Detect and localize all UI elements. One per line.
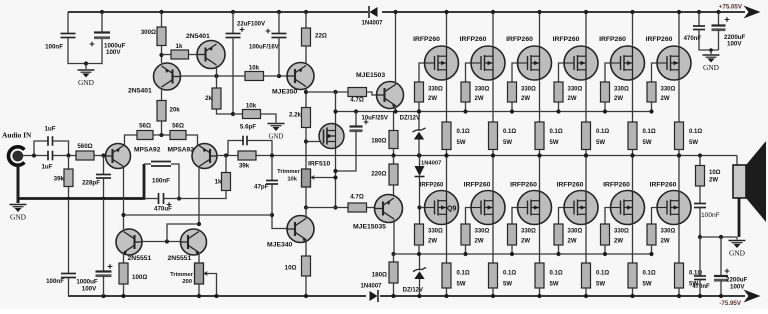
wire R7 to Q4 emitter	[186, 135, 198, 146]
wire gate M3	[512, 63, 517, 82]
label 1uF C3	[41, 164, 52, 171]
svg-text:300Ω: 300Ω	[141, 29, 156, 36]
wire output to R19	[393, 156, 395, 165]
wire gate M8	[466, 208, 471, 225]
junction zener top bus	[417, 109, 421, 113]
svg-text:180Ω: 180Ω	[372, 272, 387, 279]
resistor R7 56	[170, 131, 186, 140]
junction RS2 output	[491, 153, 495, 157]
label 5W RS4	[596, 140, 605, 146]
label 100nF C1	[45, 44, 63, 51]
label 2N5551 Q8	[168, 255, 192, 262]
label 2W RG2	[475, 96, 484, 102]
svg-text:0.1Ω: 0.1Ω	[457, 271, 470, 277]
label 0.1 RS8	[503, 271, 516, 277]
label 2k R8	[205, 95, 212, 102]
wire source M3	[539, 80, 541, 122]
resistor RG5 330/2W	[601, 82, 610, 102]
label 330 RG7	[428, 229, 443, 235]
wire R3 to tail	[161, 121, 163, 135]
wire MJE1503 collector to rail	[395, 12, 397, 85]
wire base node to C5	[103, 156, 105, 175]
junction C14 source line	[333, 169, 337, 173]
label 330 RG4	[568, 87, 583, 93]
wire R5 to Q3 base	[94, 155, 107, 157]
diode D3 1N4007	[415, 166, 425, 177]
label 2W RG4	[568, 96, 577, 102]
svg-text:2N5401: 2N5401	[128, 88, 152, 95]
resistor RG6 330/2W	[647, 82, 656, 102]
wire rail to C1	[67, 12, 69, 34]
svg-text:100Ω: 100Ω	[132, 274, 147, 281]
ground bottom-right	[729, 241, 746, 258]
label DZ/12V ZD1	[400, 116, 420, 122]
svg-text:560Ω: 560Ω	[77, 143, 92, 150]
svg-text:MPSA92: MPSA92	[168, 147, 195, 154]
junction wiper source line	[333, 175, 337, 179]
wire C4 to node B	[53, 141, 69, 156]
svg-text:100V: 100V	[106, 49, 121, 56]
label 180 R18	[371, 138, 386, 145]
label MJE340 Q10	[267, 242, 293, 249]
junction drain M1 rail	[444, 10, 448, 14]
svg-text:10Ω: 10Ω	[709, 170, 721, 176]
wire VR1 wiper	[315, 177, 336, 179]
svg-text:330Ω: 330Ω	[614, 87, 629, 93]
wire rail to R1	[161, 12, 163, 27]
label 0.1 RS11	[643, 271, 656, 277]
mosfet M5 IRFP260	[611, 46, 645, 80]
label 10 R16	[285, 265, 297, 272]
wire top gate bus	[336, 111, 652, 113]
label MJE1503 Q11	[356, 72, 385, 79]
wire R11 to Q5 emitter	[305, 46, 307, 63]
capacitor C18 470nF	[694, 276, 706, 280]
svg-text:-75.95V: -75.95V	[719, 300, 742, 307]
wire ground wire to C18	[699, 237, 701, 276]
ground top-right	[703, 55, 720, 72]
mosfet M7 IRFP260	[425, 191, 459, 225]
svg-text:2W: 2W	[428, 96, 437, 102]
label 180 R21	[372, 272, 387, 279]
junction C17 ground wire	[698, 235, 702, 239]
wire RG10 to bus	[558, 245, 560, 254]
svg-text:5W: 5W	[596, 282, 605, 288]
capacitor C8 5.6pF	[243, 136, 247, 146]
label IRFP260 M12	[650, 182, 677, 189]
wire R15 to rail	[123, 284, 125, 296]
diode D2 1N4007 in bottom rail	[366, 289, 380, 303]
wire R8 to bias node	[217, 109, 234, 114]
wire IRF510 source down	[335, 149, 337, 208]
capacitor C10 100nF	[151, 162, 171, 167]
label 1k R2	[176, 43, 183, 50]
svg-text:2W: 2W	[475, 239, 484, 245]
label 10k R9	[249, 65, 260, 72]
svg-text:2N5551: 2N5551	[128, 255, 152, 262]
label IRFP260 M5	[599, 36, 626, 43]
svg-text:2W: 2W	[568, 239, 577, 245]
svg-text:Q9: Q9	[447, 206, 456, 213]
junction RG3 bus	[510, 109, 514, 113]
junction Q2 emitter node	[214, 74, 218, 78]
resistor RG3 330/2W	[508, 82, 517, 102]
wire MJE15035 emitter down	[393, 220, 395, 255]
resistor RS5 0.1/5W	[628, 122, 637, 150]
wire gate M12	[652, 208, 657, 225]
wire bus to C14	[355, 112, 357, 127]
junction R15 rail	[121, 294, 125, 298]
wire C18 to rail	[699, 280, 701, 297]
junction drain M11 output	[630, 153, 634, 157]
wire output to speaker	[736, 156, 738, 166]
wire MJE340 collector up	[305, 208, 307, 219]
label 2N5401 Q2	[186, 33, 210, 40]
wire source M5	[632, 80, 634, 122]
wire ground bus to C12	[68, 199, 70, 274]
resistor R16 10	[302, 256, 311, 276]
wire ground wire to C19	[720, 237, 722, 276]
junction C9 C10 node	[177, 196, 181, 200]
junction IRF510 gate node	[304, 139, 308, 143]
label MPSA92 Q4	[168, 147, 195, 154]
label 5W RS11	[643, 282, 652, 288]
svg-text:330Ω: 330Ω	[521, 87, 536, 93]
svg-text:IRFP260: IRFP260	[599, 36, 626, 43]
junction rail R1	[159, 10, 163, 14]
svg-text:2W: 2W	[521, 239, 530, 245]
svg-text:IRFP260: IRFP260	[460, 36, 487, 43]
wire VR2 wiper to rail	[208, 274, 217, 297]
label Trimmer VR2	[170, 272, 194, 278]
label 22uF100V C6	[237, 22, 265, 28]
svg-text:2W: 2W	[614, 239, 623, 245]
label 330 RG11	[614, 229, 629, 235]
svg-text:330Ω: 330Ω	[661, 87, 676, 93]
wire C10 to node	[171, 164, 179, 199]
svg-text:10Ω: 10Ω	[285, 265, 297, 272]
svg-text:0.1Ω: 0.1Ω	[550, 129, 563, 135]
svg-text:5W: 5W	[596, 140, 605, 146]
wire Q3 emitter to R6	[125, 135, 138, 146]
svg-text:5W: 5W	[457, 140, 466, 146]
resistor RS8 0.1/5W	[489, 263, 498, 288]
wire RS6 to output	[678, 150, 680, 156]
capacitor C15 470nF	[693, 26, 705, 30]
wire Q1 to R3	[161, 90, 163, 101]
svg-text:470uF: 470uF	[154, 206, 172, 213]
junction GND bracket	[84, 61, 88, 65]
svg-text:+75.05V: +75.05V	[719, 4, 743, 11]
label IRFP260 M6	[646, 36, 673, 43]
junction drain M8 output	[491, 153, 495, 157]
zener ZD2 DZ/12V	[413, 268, 426, 280]
label 330 RG2	[475, 87, 490, 93]
svg-text:180Ω: 180Ω	[371, 138, 386, 145]
wire source M4	[585, 80, 587, 122]
label IRFP260 M7	[420, 183, 444, 189]
junction RS4 output	[584, 153, 588, 157]
wire Q1 collector row	[180, 75, 246, 77]
resistor R9 10k	[245, 72, 264, 81]
resistor R20 4.7	[348, 203, 367, 212]
wire bottom gate bus	[394, 253, 652, 255]
transistor Q8 2N5551	[181, 229, 207, 255]
svg-text:1uF: 1uF	[44, 126, 55, 133]
wire source M6	[678, 80, 680, 122]
junction wiper rail	[214, 294, 218, 298]
label 560 R5	[77, 143, 92, 150]
wire gate M7	[420, 207, 425, 209]
wire VR2 to rail	[198, 284, 200, 296]
label 56 R6	[139, 123, 151, 130]
wire to C8	[228, 141, 243, 156]
wire drain M3	[539, 12, 541, 46]
label IRFP260 M10	[557, 182, 584, 189]
mosfet M9 IRFP260	[518, 191, 552, 225]
wire bus to R21	[393, 254, 395, 262]
wire rail to C2	[101, 12, 103, 33]
wire -75V bottom rail	[68, 295, 745, 297]
plus C13	[108, 264, 113, 269]
svg-text:0.1Ω: 0.1Ω	[503, 129, 516, 135]
wire feedback row	[125, 214, 273, 216]
wire bus to ZD2	[419, 254, 421, 270]
wire RG6 to bus	[651, 102, 653, 112]
label Trimmer VR1	[277, 169, 301, 175]
label 2200uF C19	[726, 277, 748, 284]
wire C14 to source line	[336, 131, 357, 172]
resistor RG8 330/2W	[461, 224, 470, 245]
resistor RS9 0.1/5W	[535, 263, 544, 288]
resistor R13 39k feedback	[238, 151, 256, 160]
wire source M11	[632, 225, 634, 263]
junction Q5 collector node	[304, 90, 308, 94]
svg-text:330Ω: 330Ω	[428, 229, 443, 235]
wire RG12 to bus	[651, 245, 653, 254]
label 5W RS6	[689, 140, 698, 146]
wire rail to C16	[718, 12, 720, 25]
wire output to D3	[419, 156, 421, 167]
junction RS10 rail	[584, 294, 588, 298]
junction Q3 base node	[101, 153, 105, 157]
label 4.7 R17	[350, 97, 364, 104]
resistor R1 300	[157, 27, 166, 46]
wire gate M5	[605, 63, 610, 82]
wire output to R22	[699, 156, 701, 166]
svg-text:330Ω: 330Ω	[475, 87, 490, 93]
wire gate M6	[652, 63, 657, 82]
wire drain M8	[492, 156, 494, 191]
wire Q8 emitter to VR2	[198, 253, 200, 263]
junction ZD2 rail	[417, 294, 421, 298]
junction RG12 bus	[649, 252, 653, 256]
svg-text:0.1Ω: 0.1Ω	[643, 271, 656, 277]
label MJE15035 Q12	[353, 224, 386, 231]
junction rail C7	[277, 10, 281, 14]
plus C14	[364, 120, 369, 125]
wire bus to ZD1	[418, 112, 420, 132]
wire RG7 to bus	[418, 245, 420, 254]
plus C16	[725, 17, 730, 22]
capacitor C3 1uF	[48, 151, 53, 161]
capacitor C7 100uF/16V	[272, 34, 287, 38]
label 20k R3	[170, 107, 181, 114]
label IRFP260 M11	[603, 182, 630, 189]
junction feedback tap	[121, 213, 125, 217]
junction zobel output	[698, 153, 702, 157]
wire RS5 to output	[632, 150, 634, 156]
wire R2 to Q2 base	[189, 54, 200, 56]
capacitor C14 10uF/25V	[350, 127, 363, 133]
svg-text:100V: 100V	[727, 41, 742, 48]
junction C14 bus	[354, 109, 358, 113]
resistor RG10 330/2W	[554, 224, 563, 245]
resistor RS4 0.1/5W	[582, 122, 591, 150]
resistor R11 22	[302, 28, 311, 46]
wire source M9	[539, 225, 541, 263]
label -75.95V	[719, 300, 742, 307]
label 1000uF C13	[76, 279, 98, 286]
wire drain M10	[585, 156, 587, 191]
svg-text:5W: 5W	[503, 140, 512, 146]
wire drain M2	[492, 12, 494, 46]
wire thick ground bus	[17, 164, 145, 203]
wire VR1 to MJE340	[305, 187, 307, 208]
svg-text:56Ω: 56Ω	[172, 123, 184, 130]
label 2N5551 Q7	[128, 255, 152, 262]
svg-text:Audio IN: Audio IN	[2, 131, 32, 140]
node input B	[66, 153, 70, 157]
wire Q7 emitter to R15	[123, 253, 125, 263]
label 100V C2	[106, 49, 121, 56]
resistor RG11 330/2W	[601, 224, 610, 245]
junction drain M2 rail	[491, 10, 495, 14]
wire RG8 to bus	[465, 245, 467, 254]
resistor R3 20k	[157, 101, 166, 122]
label 0.1 RS7	[457, 271, 470, 277]
mosfet M3 IRFP260	[518, 46, 552, 80]
resistor R10 10k	[243, 110, 261, 119]
label 4.7 R20	[350, 194, 364, 201]
svg-text:10k: 10k	[287, 177, 297, 183]
wire C5 to ground bus	[103, 178, 105, 199]
resistor R22 10/2W	[696, 166, 705, 187]
wire rail to C15	[698, 12, 700, 26]
wire ZD1 to output bus	[418, 140, 420, 156]
capacitor C11 47pF	[266, 181, 278, 185]
resistor RG9 330/2W	[508, 224, 517, 245]
junction feedback output node	[270, 153, 274, 157]
label 330 RG6	[661, 87, 676, 93]
junction C19 rail	[719, 294, 723, 298]
label 1N4007 D1	[361, 21, 383, 27]
plus C19	[725, 269, 730, 274]
wire drain M9	[539, 156, 541, 191]
label 100V C13	[82, 286, 97, 293]
wire RS12 to rail	[678, 288, 680, 296]
label 2.2k R12	[289, 112, 302, 119]
junction MJE1503 emitter bus	[393, 109, 397, 113]
label 5W RS3	[550, 140, 559, 146]
resistor R6 56	[137, 131, 153, 140]
junction ZD1 output	[417, 153, 421, 157]
wire C19 to rail	[720, 280, 722, 296]
svg-text:5W: 5W	[550, 282, 559, 288]
wire R14 to C9 node	[179, 191, 226, 199]
mosfet M6 IRFP260	[657, 46, 691, 80]
label 2W RG11	[614, 239, 623, 245]
svg-text:MJE15035: MJE15035	[353, 224, 386, 231]
svg-text:IRFP260: IRFP260	[464, 182, 491, 189]
wire C15 to GND wire	[699, 30, 719, 51]
wire drain M12	[678, 156, 680, 191]
wire R4 to ground bus	[68, 187, 70, 199]
svg-text:100nF: 100nF	[152, 178, 170, 185]
junction R14 node	[224, 153, 228, 157]
mosfet M11 IRFP260	[611, 191, 645, 225]
wire C17 to ground wire	[699, 208, 701, 238]
svg-text:0.1Ω: 0.1Ω	[457, 129, 470, 135]
wire gate M11	[605, 208, 610, 225]
junction C7 base node	[277, 74, 281, 78]
transistor Q1 2N5401	[154, 63, 181, 90]
wire Q3 collector down	[123, 167, 125, 230]
label 0.1 RS4	[596, 129, 609, 135]
ground mid	[268, 124, 285, 141]
junction drive tap	[333, 90, 337, 94]
resistor R21 180	[389, 262, 398, 283]
label 470uF C9	[154, 206, 172, 213]
label IRFP260 M1	[413, 36, 440, 43]
label 1N4007 D2	[360, 284, 382, 290]
junction rail C2	[100, 10, 104, 14]
wire rail to C6	[232, 12, 234, 33]
svg-text:GND: GND	[269, 134, 284, 141]
wire R1 to Q1	[161, 46, 163, 64]
wire source M10	[585, 225, 587, 263]
label IRFP260 M2	[460, 36, 487, 43]
svg-text:MPSA92: MPSA92	[134, 147, 161, 154]
svg-text:100V: 100V	[730, 284, 745, 291]
svg-text:330Ω: 330Ω	[475, 229, 490, 235]
svg-text:1000uF: 1000uF	[76, 279, 98, 286]
label 10k VR1	[287, 177, 297, 183]
svg-text:5W: 5W	[643, 282, 652, 288]
wire bottom ground wire	[700, 236, 737, 238]
label 200 VR2	[182, 279, 192, 285]
label 0.1 RS2	[503, 129, 516, 135]
junction drain M10 output	[584, 153, 588, 157]
label 220 R19	[371, 171, 386, 178]
label 2W RG8	[475, 239, 484, 245]
wire node to R14	[225, 156, 227, 173]
wire gate M2	[466, 63, 471, 82]
label 2W RG9	[521, 239, 530, 245]
mosfet M2 IRFP260	[471, 46, 505, 80]
svg-text:330Ω: 330Ω	[661, 229, 676, 235]
svg-text:2W: 2W	[521, 96, 530, 102]
label 330 RG5	[614, 87, 629, 93]
svg-text:MJE1503: MJE1503	[356, 72, 385, 79]
svg-text:56Ω: 56Ω	[139, 123, 151, 130]
svg-text:DZ/12V: DZ/12V	[400, 116, 420, 122]
wire source M7	[446, 225, 448, 263]
capacitor C2 1000uF/100V	[94, 33, 110, 40]
label 2W RG6	[661, 96, 670, 102]
svg-text:330Ω: 330Ω	[521, 229, 536, 235]
plus C9	[167, 202, 172, 207]
